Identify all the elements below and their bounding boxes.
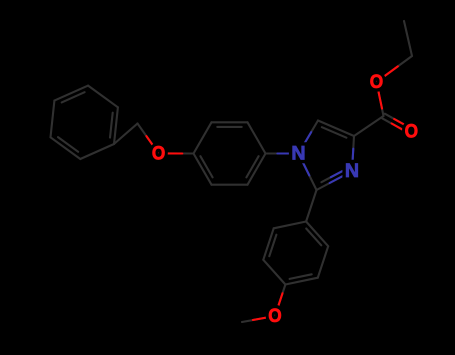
svg-text:N: N — [291, 143, 305, 165]
svg-text:N: N — [345, 160, 359, 182]
svg-text:O: O — [268, 305, 281, 327]
svg-text:O: O — [152, 142, 165, 164]
svg-text:O: O — [370, 71, 383, 93]
svg-text:O: O — [405, 121, 418, 143]
